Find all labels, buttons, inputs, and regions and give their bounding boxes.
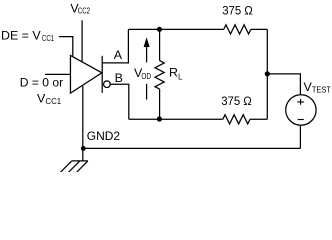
wire output A <box>102 29 128 63</box>
wire D input <box>45 73 70 75</box>
arrow VOD upper <box>146 45 148 62</box>
node bubble on B output <box>104 81 111 88</box>
wire VCC2 lead <box>81 20 83 62</box>
wire top rail right <box>251 28 267 30</box>
wire GND2 lead <box>82 86 84 161</box>
svg-text:CC2: CC2 <box>78 6 91 15</box>
arrowhead VOD up <box>144 37 150 47</box>
wire DE input <box>59 37 73 57</box>
svg-text:CC1: CC1 <box>45 97 61 106</box>
wire top rail left <box>128 28 223 30</box>
op-amp U1 driver triangle <box>70 55 101 93</box>
wire output B <box>110 84 128 119</box>
resistor R2 375 ohm bottom zigzag <box>223 115 250 124</box>
node dot GND corner <box>81 146 86 151</box>
node dot RL top <box>157 27 162 32</box>
svg-text:A: A <box>114 48 123 62</box>
arrow VOD lower <box>146 84 148 100</box>
svg-text:CC1: CC1 <box>42 34 54 43</box>
minus sign in VTEST <box>298 119 304 121</box>
svg-text:DE = V: DE = V <box>1 29 41 43</box>
wire bottom return <box>83 147 300 149</box>
node dot RL bottom <box>157 116 162 121</box>
resistor RL leads and zigzag <box>159 29 161 60</box>
svg-text:R: R <box>169 65 178 79</box>
wire bottom rail left <box>129 118 223 120</box>
svg-text:GND2: GND2 <box>87 129 120 143</box>
svg-text:375 Ω: 375 Ω <box>222 4 253 18</box>
svg-text:TEST: TEST <box>312 85 331 94</box>
svg-text:375 Ω: 375 Ω <box>221 94 252 108</box>
svg-text:OD: OD <box>141 71 151 81</box>
wire VTEST bottom lead <box>299 126 301 149</box>
ground chassis symbol <box>60 161 88 173</box>
node dot VTEST branch <box>265 71 270 76</box>
svg-text:L: L <box>178 72 183 81</box>
wire right vertical <box>266 29 268 119</box>
resistor R1 375 ohm top zigzag <box>224 25 251 34</box>
svg-text:B: B <box>115 71 123 85</box>
plus sign in VTEST <box>297 99 304 105</box>
wire bottom rail right <box>250 118 267 120</box>
svg-text:D = 0 or: D = 0 or <box>20 76 63 90</box>
wire output stem <box>101 56 103 93</box>
voltage source VTEST circle <box>286 95 316 125</box>
wire VTEST branch <box>267 74 300 94</box>
